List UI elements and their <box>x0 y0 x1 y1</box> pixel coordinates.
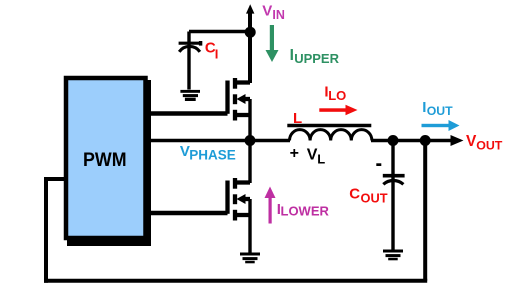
svg-text:I: I <box>215 47 219 62</box>
svg-text:OUT: OUT <box>361 191 388 206</box>
svg-text:C: C <box>349 186 360 203</box>
svg-text:V: V <box>307 147 318 164</box>
svg-text:PHASE: PHASE <box>189 148 236 163</box>
svg-text:LOWER: LOWER <box>281 204 330 219</box>
svg-text:OUT: OUT <box>476 139 503 153</box>
svg-text:L: L <box>317 151 325 166</box>
svg-text:PWM: PWM <box>83 149 127 171</box>
svg-text:L: L <box>293 110 302 127</box>
svg-text:OUT: OUT <box>427 104 453 118</box>
svg-text:+: + <box>290 145 299 162</box>
svg-text:LO: LO <box>328 88 346 103</box>
svg-text:V: V <box>262 3 272 20</box>
svg-text:UPPER: UPPER <box>294 51 339 66</box>
svg-text:IN: IN <box>272 8 285 22</box>
